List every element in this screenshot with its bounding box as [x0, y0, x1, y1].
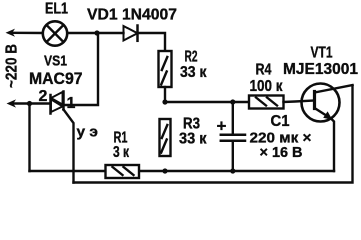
terminal arrow bottom (~220V) [7, 99, 17, 107]
svg-text:у э: у э [77, 124, 99, 141]
wire: R4 to base [284, 101, 315, 103]
wire: R2 bottom to middle rail [164, 87, 166, 102]
resistor R4 [249, 96, 284, 109]
wire: mains top lead to lamp [12, 32, 43, 35]
node A junction dot [94, 30, 99, 35]
svg-text:MAC97: MAC97 [29, 70, 83, 88]
capacitor C1 [232, 102, 234, 134]
wire: emitter down to bottom rail [333, 120, 335, 171]
svg-text:~220 В: ~220 В [4, 44, 21, 88]
svg-text:× 16 В: × 16 В [260, 144, 303, 161]
diode VD1 [124, 26, 138, 41]
wire: bottom rail (emitter/C1/R3/R1) [30, 170, 335, 172]
node C1-bottom junction dot [230, 168, 235, 173]
svg-text:33 к: 33 к [180, 64, 207, 81]
svg-text:3 к: 3 к [113, 144, 129, 161]
wire: lamp to node A [67, 32, 123, 34]
svg-text:R2: R2 [185, 49, 198, 66]
wire: triac gate down to gate rail [64, 110, 74, 183]
svg-text:MJE13001: MJE13001 [283, 61, 358, 78]
wire: diode to R2 top corner [138, 33, 166, 51]
svg-text:VD1 1N4007: VD1 1N4007 [87, 7, 177, 24]
node C1-top junction dot [230, 99, 235, 104]
node R3-bottom junction dot [162, 168, 167, 173]
wire: triac MT2 up to node A [64, 33, 99, 105]
node D junction dot [27, 101, 32, 106]
node B junction dot [162, 99, 167, 104]
svg-text:1: 1 [67, 95, 76, 112]
svg-text:EL1: EL1 [45, 1, 68, 18]
resistor R2 [159, 51, 172, 87]
wire: node D down to bottom rail [28, 104, 30, 172]
svg-text:2: 2 [39, 88, 48, 105]
lamp EL1 [43, 21, 67, 45]
svg-text:+: + [217, 117, 227, 136]
wire: mains bottom lead [13, 102, 51, 104]
svg-text:33 к: 33 к [179, 131, 207, 148]
wire: middle rail (node B) [165, 101, 249, 103]
svg-text:100 к: 100 к [250, 78, 283, 95]
resistor R3 [160, 119, 171, 156]
transistor VT1 [302, 84, 340, 122]
svg-text:VS1: VS1 [44, 53, 67, 70]
svg-text:С1: С1 [271, 113, 290, 130]
wire: collector down right side to gate rail [74, 86, 353, 183]
resistor R1 [106, 165, 140, 178]
svg-text:VT1: VT1 [311, 45, 333, 62]
svg-text:R4: R4 [256, 62, 272, 79]
terminal arrow top (~220V) [6, 29, 16, 37]
triac VS1 [49, 95, 52, 114]
